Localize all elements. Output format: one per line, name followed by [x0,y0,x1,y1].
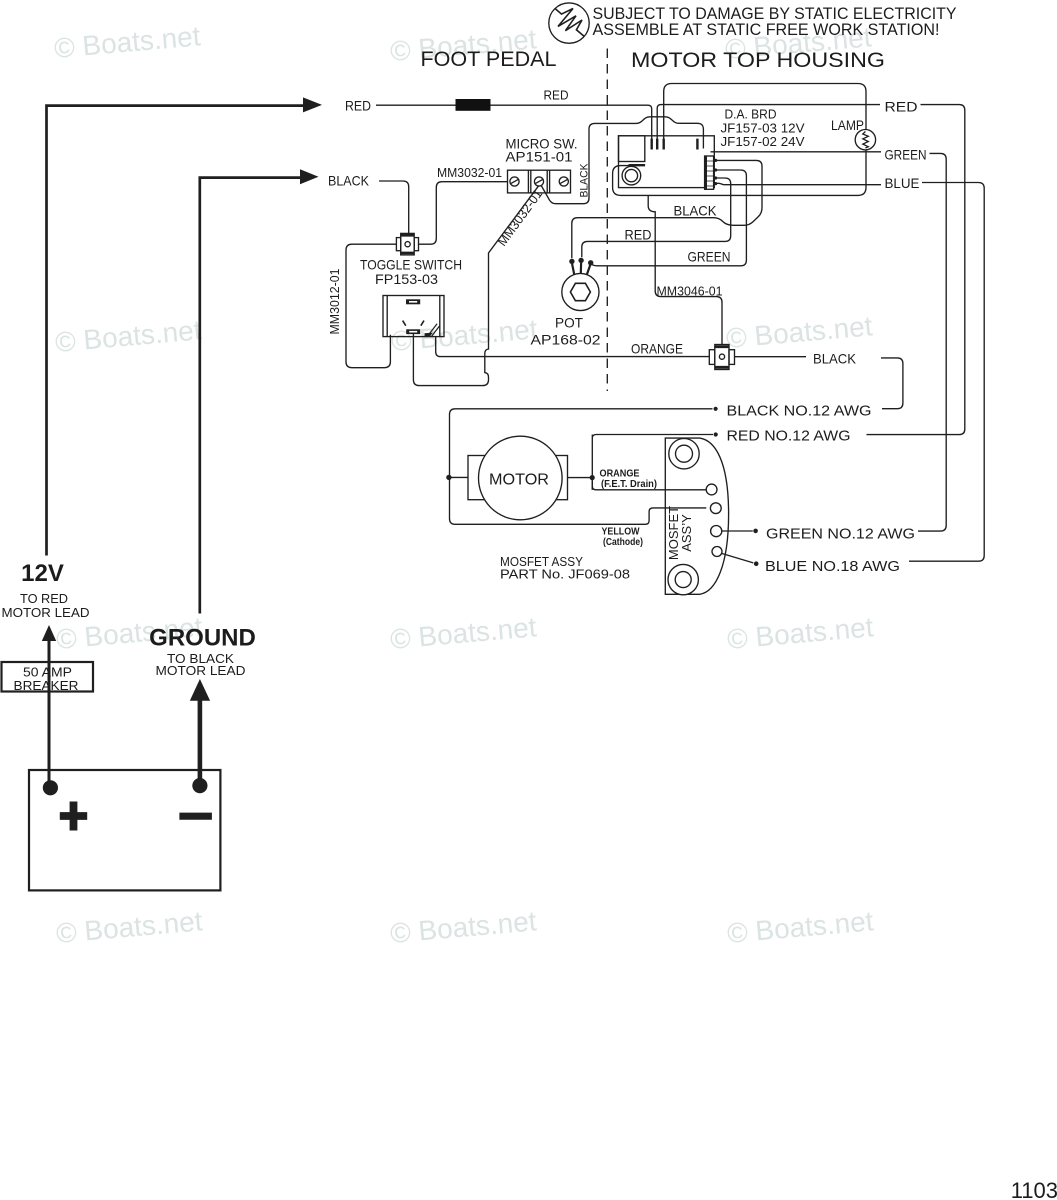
svg-text:ASS’Y: ASS’Y [679,514,694,552]
splice block on RED wire [456,99,491,111]
svg-text:POT: POT [555,315,583,331]
wire ORANGE (toggle to MM3046 connector) [436,337,710,357]
svg-text:12V: 12V [21,560,64,587]
svg-text:GREEN: GREEN [885,147,927,163]
wire BLACK (pin A to potentiometer) [572,160,762,258]
svg-text:RED: RED [885,99,918,115]
svg-text:BLACK NO.12 AWG: BLACK NO.12 AWG [727,404,872,420]
wire RED right column [867,105,965,435]
wire BLACK NO.12 AWG / motor loop [450,409,713,525]
wire BLACK feed to toggle connector [379,181,409,233]
node battery positive terminal [43,780,58,795]
svg-text:© Boats.net: © Boats.net [726,611,875,655]
watermark grid [53,20,875,949]
toggle connector MM3012/MM3032 [396,233,418,255]
connector strip on board [705,156,718,189]
arrow 12V up [42,625,56,641]
lamp L1 [855,130,875,150]
svg-text:© Boats.net: © Boats.net [390,313,539,357]
arrow BLACK feed [300,169,319,184]
static electricity symbol [549,3,589,43]
wire junction to motor [450,476,469,478]
battery minus symbol [179,813,212,820]
wire toggle center pin to micro diagonal [413,186,538,386]
svg-text:YELLOW: YELLOW [602,527,640,538]
svg-text:BLACK: BLACK [674,203,718,219]
breaker 50 AMP [2,662,94,692]
svg-text:(Cathode): (Cathode) [603,537,643,548]
svg-text:RED: RED [544,88,569,103]
svg-text:RED: RED [345,98,371,114]
svg-text:FOOT PEDAL: FOOT PEDAL [421,48,557,71]
micro switch AP151-01 [508,170,571,193]
node BLACK NO.12 AWG [714,407,718,411]
svg-text:BLACK: BLACK [813,351,857,367]
battery plus symbol [60,802,87,831]
svg-text:© Boats.net: © Boats.net [55,905,204,949]
svg-text:BLUE NO.18 AWG: BLUE NO.18 AWG [765,559,900,575]
svg-text:MM3012-01: MM3012-01 [327,269,342,335]
wire GREEN (board to right label) [711,151,882,153]
svg-text:D.A. BRD: D.A. BRD [725,107,777,122]
svg-text:© Boats.net: © Boats.net [726,905,875,949]
connector MM3046-01 [709,345,734,370]
svg-text:BLACK: BLACK [579,163,591,198]
mosfet assembly board [665,438,728,595]
wire GREEN NO.12 AWG from mosfet [722,530,753,532]
wire RED (pin C to potentiometer) [582,178,731,257]
node GREEN NO.12 AWG [753,529,758,534]
wire MM3032-01 (toggle connector to micro switch) [419,182,508,245]
svg-text:AP168-02: AP168-02 [531,332,601,348]
wire GREEN right column [918,153,946,531]
svg-text:RED NO.12 AWG: RED NO.12 AWG [727,429,851,445]
wire BLACK hop (micro switch to D.A. board) [542,117,704,204]
D.A. circuit board [619,136,715,188]
node BLUE NO.18 AWG [754,561,759,566]
wire GREEN (pin B to potentiometer) [591,170,746,266]
housing outline (motor top housing enclosure) [613,84,866,196]
stem 12V arrow [48,640,51,783]
wire BLUE NO.18 AWG from mosfet [722,554,753,563]
svg-text:GREEN NO.12 AWG: GREEN NO.12 AWG [766,527,915,543]
node FET drain [590,475,595,480]
wire MM3046-01 (housing to connector) [648,196,722,345]
node junction motor left [446,475,451,480]
svg-text:MOTOR: MOTOR [489,472,549,489]
svg-text:LAMP: LAMP [831,117,864,133]
svg-text:MM3032-01: MM3032-01 [437,165,502,180]
svg-text:ASSEMBLE AT STATIC FREE WORK S: ASSEMBLE AT STATIC FREE WORK STATION! [593,20,940,39]
wire BLACK feed thick [200,178,300,614]
bracket BLACK to BLACK NO.12 AWG [881,358,903,409]
svg-text:AP151-01: AP151-01 [506,149,573,165]
arrow GROUND up [190,679,210,701]
svg-text:MOTOR TOP HOUSING: MOTOR TOP HOUSING [631,49,885,72]
svg-text:FP153-03: FP153-03 [375,271,438,287]
svg-text:TO RED: TO RED [20,592,68,606]
svg-text:MOTOR LEAD: MOTOR LEAD [2,606,90,620]
svg-text:MM3032-01: MM3032-01 [494,187,545,249]
potentiometer POT AP168-02 [562,258,599,311]
svg-text:50 AMP: 50 AMP [23,666,72,680]
svg-text:MOTOR LEAD: MOTOR LEAD [156,664,246,678]
svg-text:ORANGE: ORANGE [600,469,640,480]
svg-text:BLUE: BLUE [885,175,920,191]
arrow 12V feed [303,97,322,112]
svg-text:© Boats.net: © Boats.net [389,611,538,655]
wire FET drain (motor to mosfet) [568,477,591,479]
svg-text:BREAKER: BREAKER [14,679,79,693]
svg-text:GROUND: GROUND [149,625,256,652]
svg-text:1103: 1103 [1011,1178,1057,1200]
svg-text:© Boats.net: © Boats.net [725,310,874,354]
node battery negative terminal [192,778,207,793]
svg-text:© Boats.net: © Boats.net [54,314,203,358]
wire BLACK (connector to bracket) [735,356,807,358]
wire MM3012-01 (toggle connector to toggle switch) [346,244,396,368]
svg-text:BLACK: BLACK [328,173,370,189]
svg-text:© Boats.net: © Boats.net [53,20,202,64]
svg-text:ORANGE: ORANGE [631,341,683,357]
wire RED to right label [657,105,880,140]
svg-text:© Boats.net: © Boats.net [389,905,538,949]
motor M [468,436,568,520]
battery BT1 [29,770,220,890]
svg-text:PART No. JF069-08: PART No. JF069-08 [500,567,630,582]
wire BLUE (board to right label) [716,183,881,184]
wire RED main (foot pedal to D.A. board) [376,105,652,140]
toggle switch FP153-03 [383,296,444,337]
svg-text:GREEN: GREEN [688,249,731,265]
dashed separator line [606,49,608,392]
svg-text:RED: RED [625,227,652,243]
stem GROUND arrow [198,700,203,781]
wire 12V feed thick [47,106,304,556]
wire BLUE right column [909,183,984,562]
label MOSFET ASS'Y (rotated) [666,506,694,560]
svg-text:JF157-02 24V: JF157-02 24V [721,134,805,149]
node RED NO.12 AWG [714,432,718,436]
svg-text:MM3046-01: MM3046-01 [657,284,723,299]
svg-text:(F.E.T. Drain): (F.E.T. Drain) [601,479,657,490]
